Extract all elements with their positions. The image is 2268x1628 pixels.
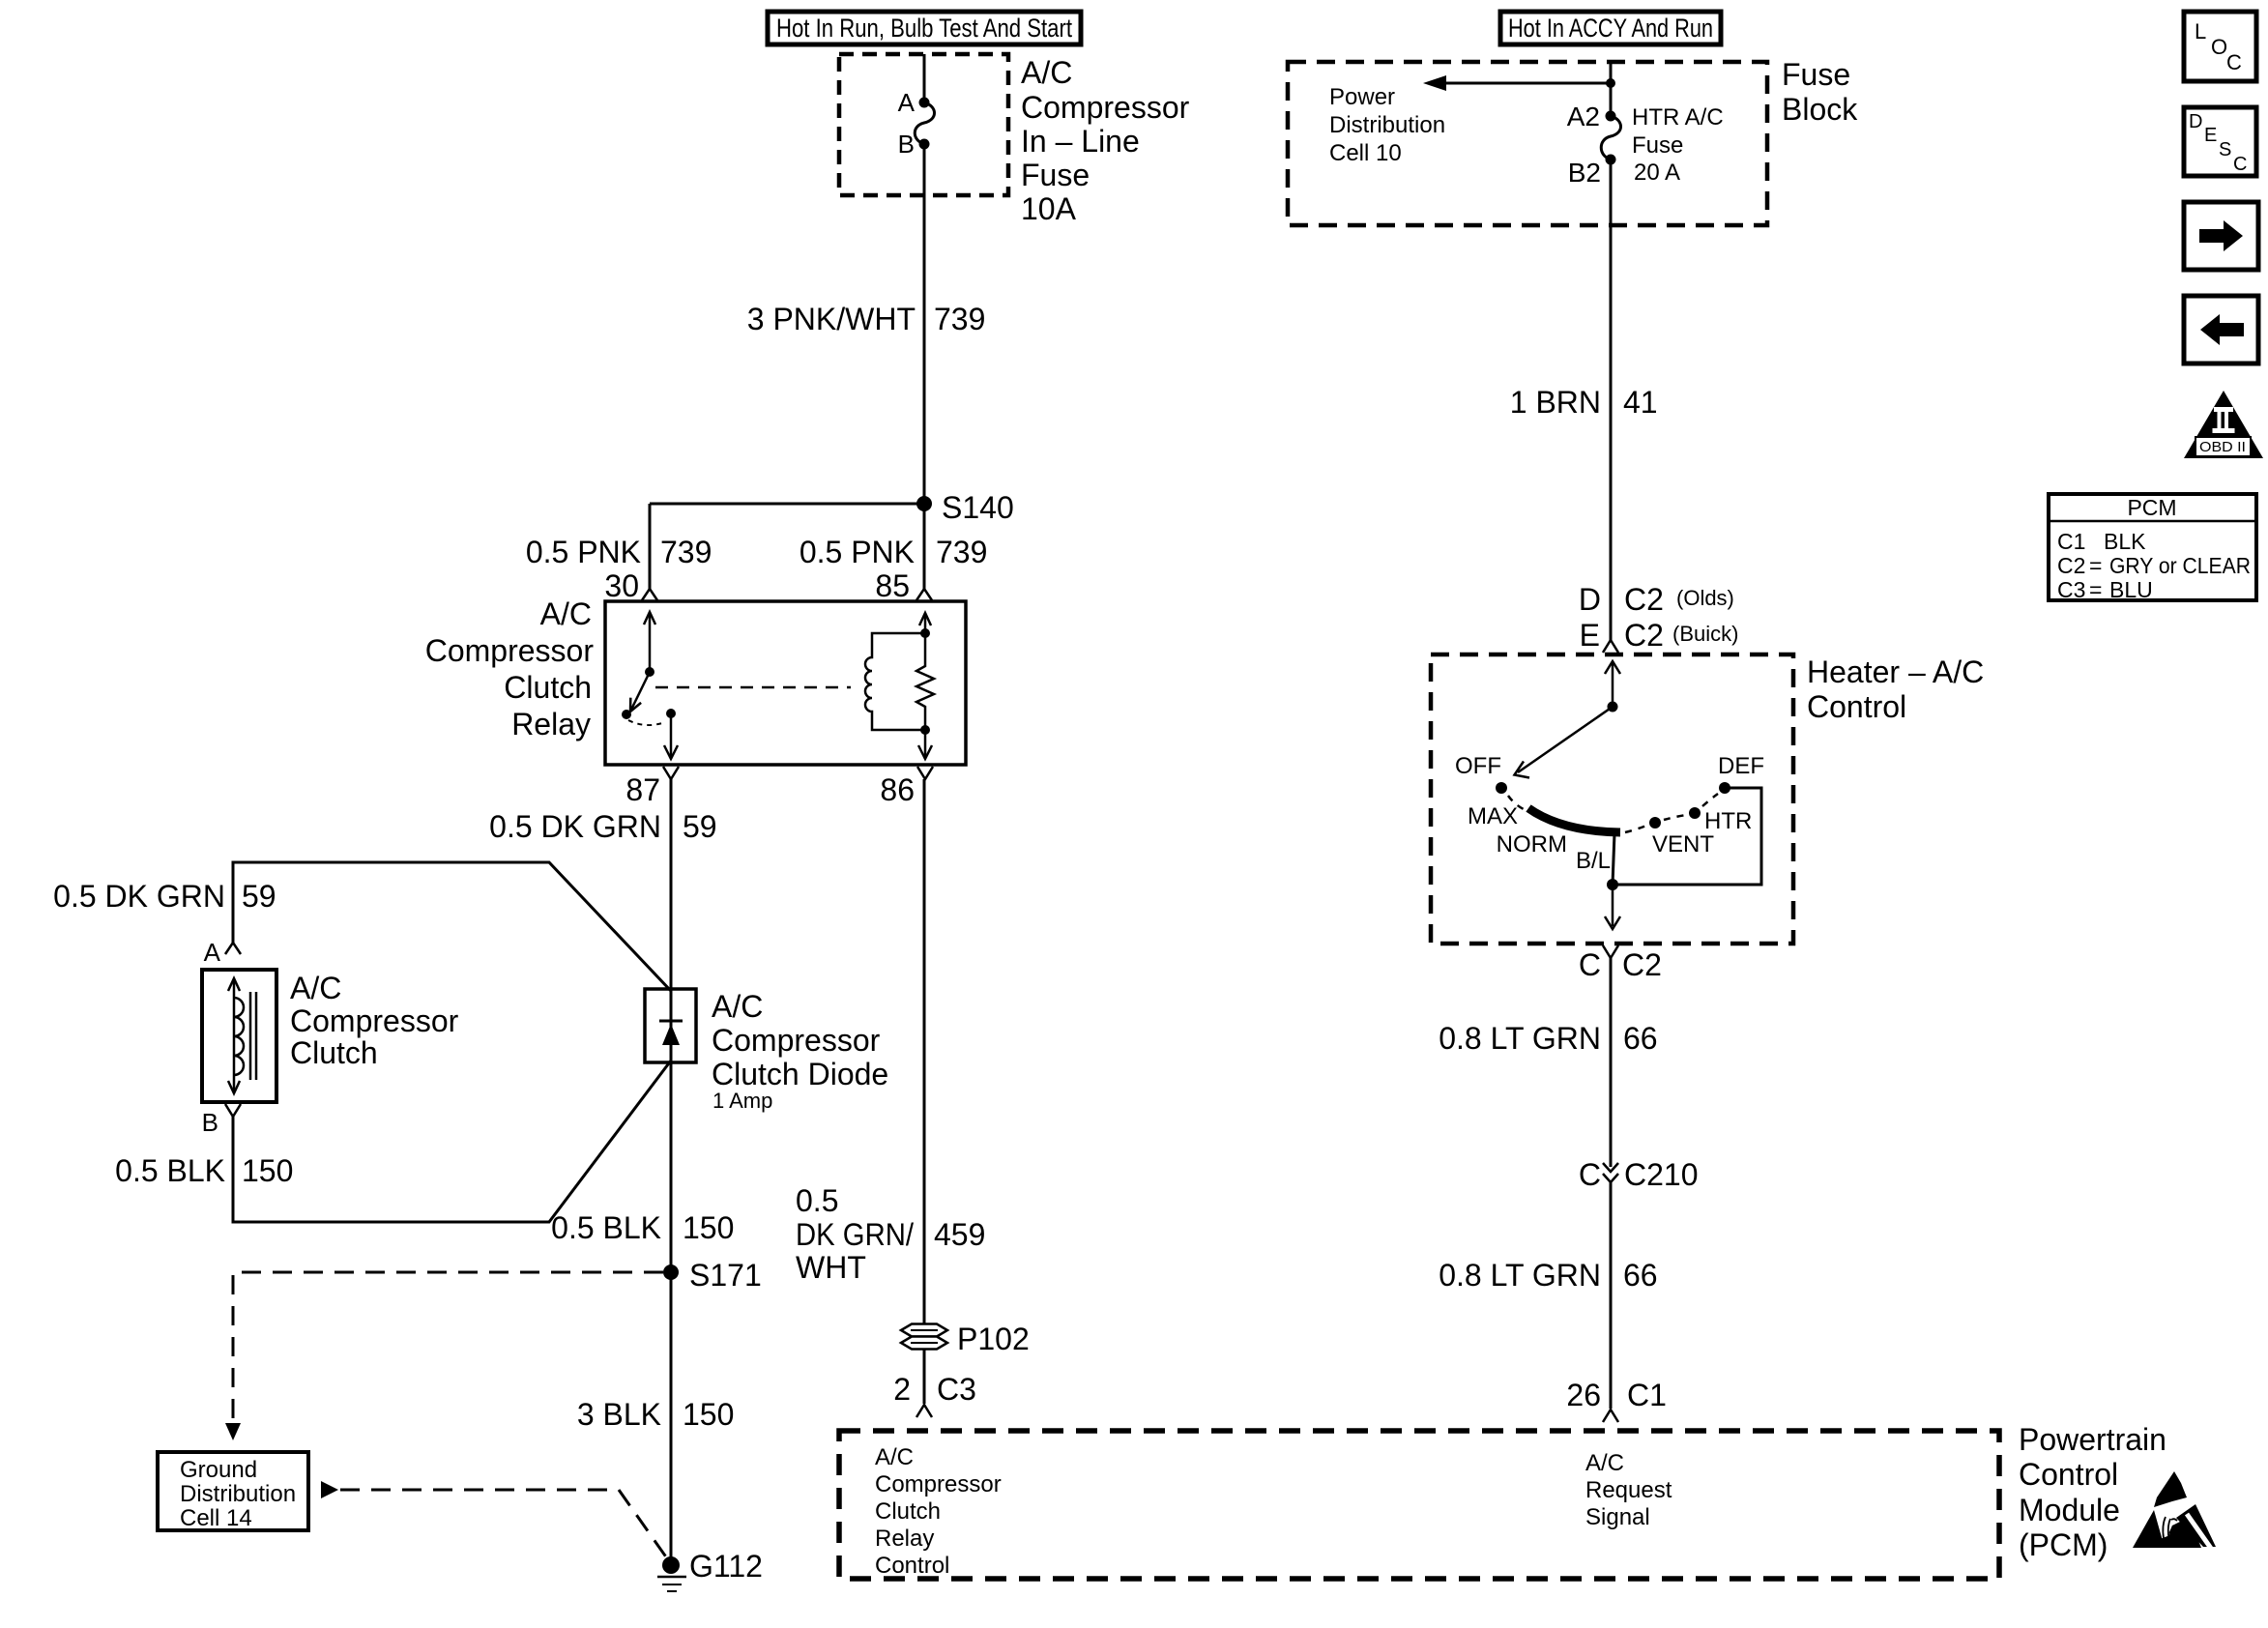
connector chevron clutch A: [225, 943, 241, 954]
in-line connector C210: [1579, 1157, 1699, 1192]
svg-text:Block: Block: [1782, 92, 1858, 127]
svg-text:Clutch: Clutch: [875, 1498, 941, 1525]
Ground Distribution Cell 14 box: [158, 1452, 308, 1531]
svg-text:BLU: BLU: [2109, 577, 2153, 602]
svg-text:A: A: [898, 88, 916, 117]
svg-text:OBD II: OBD II: [2199, 439, 2246, 455]
splice S171: [663, 1258, 762, 1293]
HTR contact: [1689, 807, 1701, 819]
svg-text:C2: C2: [2057, 553, 2085, 578]
relay switch pivot: [645, 667, 654, 677]
svg-text:Control: Control: [2019, 1457, 2118, 1492]
A/C Compressor In-Line Fuse 10A label: [1021, 55, 1190, 226]
wire label 0.5 DK GRN 59 (clutch): [53, 879, 276, 914]
svg-text:NORM: NORM: [1497, 831, 1567, 858]
svg-text:739: 739: [934, 302, 985, 336]
mode switch wiper arm: [1518, 707, 1613, 772]
connector chevron pin30: [642, 589, 657, 600]
svg-text:S171: S171: [689, 1258, 762, 1293]
relay pin87 contact: [666, 709, 676, 718]
svg-text:B2: B2: [1568, 158, 1601, 188]
svg-text:S: S: [2219, 139, 2231, 160]
VENT contact: [1649, 817, 1661, 829]
svg-text:C: C: [1579, 947, 1601, 982]
svg-text:20 A: 20 A: [1634, 160, 1680, 186]
Fuse Block label: [1782, 57, 1858, 127]
svg-text:G112: G112: [689, 1549, 763, 1584]
svg-text:=: =: [2089, 553, 2102, 578]
svg-text:WHT: WHT: [796, 1250, 866, 1285]
ESD sensitive symbol: [2133, 1471, 2216, 1550]
svg-text:2: 2: [893, 1372, 911, 1407]
svg-text:BLK: BLK: [2104, 529, 2146, 554]
svg-text:Compressor: Compressor: [875, 1471, 1002, 1497]
svg-text:Compressor: Compressor: [712, 1023, 881, 1058]
fuse terminal B2: [1606, 155, 1616, 165]
svg-text:0.5 PNK: 0.5 PNK: [800, 535, 915, 569]
wire label 0.5 BLK 150 (clutch): [115, 1153, 293, 1188]
svg-text:E: E: [2204, 125, 2217, 146]
svg-text:A2: A2: [1567, 102, 1600, 131]
svg-text:DK GRN/: DK GRN/: [796, 1217, 914, 1252]
svg-text:59: 59: [242, 879, 276, 914]
in-line fuse element: [915, 102, 934, 144]
svg-text:C1: C1: [1627, 1378, 1667, 1412]
pin labels 26 C1: [1566, 1378, 1667, 1412]
svg-text:150: 150: [242, 1153, 293, 1188]
svg-text:(Olds): (Olds): [1676, 586, 1734, 610]
svg-text:OFF: OFF: [1455, 753, 1501, 779]
fuse terminal B: [919, 139, 930, 150]
back navigation arrow box: [2184, 296, 2258, 363]
wire fuse block to heater control: [1610, 160, 1613, 640]
svg-text:Distribution: Distribution: [180, 1481, 296, 1507]
svg-text:(PCM): (PCM): [2019, 1527, 2108, 1562]
svg-text:E: E: [1580, 618, 1600, 653]
svg-text:87: 87: [625, 772, 660, 807]
svg-text:Compressor: Compressor: [1021, 90, 1190, 125]
A/C Compressor Clutch Diode box: [645, 989, 696, 1062]
dashed link ground distribution to G112: [340, 1490, 667, 1558]
svg-text:C2: C2: [1624, 582, 1664, 617]
svg-text:A/C: A/C: [1021, 55, 1072, 90]
OBD II symbol: [2184, 391, 2263, 458]
svg-text:Control: Control: [875, 1553, 949, 1579]
mode dashed arc OFF-MAX: [1508, 796, 1526, 810]
svg-text:Signal: Signal: [1585, 1504, 1650, 1530]
svg-text:0.5 BLK: 0.5 BLK: [115, 1153, 225, 1188]
clutch core lines: [249, 992, 252, 1080]
mode dashed arc VENT-HTR: [1664, 815, 1686, 820]
relay common contact: [622, 710, 631, 719]
svg-text:C2: C2: [1622, 947, 1662, 982]
HTR A/C fuse element: [1601, 116, 1620, 160]
svg-text:Control: Control: [1807, 689, 1906, 724]
connector labels E C2 (Buick): [1580, 618, 1739, 653]
svg-text:C3: C3: [937, 1372, 976, 1407]
splice S140: [916, 490, 1014, 525]
connector chevron pin86: [917, 767, 933, 779]
wire into fuse block: [1610, 62, 1613, 116]
svg-text:86: 86: [880, 772, 915, 807]
svg-text:HTR: HTR: [1704, 808, 1752, 834]
svg-text:150: 150: [683, 1397, 734, 1432]
svg-text:Module: Module: [2019, 1493, 2120, 1527]
dashed link S171 to ground distribution: [233, 1272, 663, 1422]
arrowhead out of ground distribution: [321, 1481, 338, 1498]
svg-text:Fuse: Fuse: [1632, 132, 1683, 159]
svg-text:Relay: Relay: [511, 707, 591, 741]
clutch name label: [290, 971, 459, 1070]
svg-text:C: C: [2233, 154, 2247, 175]
clutch coil with arrows: [233, 979, 236, 1092]
relay name label: [425, 596, 595, 741]
fuse terminal A2: [1606, 111, 1616, 122]
svg-text:A: A: [204, 938, 221, 967]
wire label 0.5 DK GRN 59: [489, 809, 716, 844]
wire diode to S171: [670, 1062, 673, 1272]
arrowhead into ground distribution: [225, 1423, 241, 1440]
svg-text:41: 41: [1623, 385, 1658, 420]
svg-text:L: L: [2195, 19, 2206, 44]
connector chevron clutch B: [225, 1104, 241, 1117]
mode switch pivot: [1608, 702, 1618, 712]
svg-text:10A: 10A: [1021, 191, 1077, 226]
power feed label box "Hot In Run, Bulb Test And Start": [768, 12, 1081, 44]
wire S171 to G112: [670, 1272, 673, 1565]
svg-text:C210: C210: [1624, 1157, 1699, 1192]
heater output arrow: [1612, 885, 1614, 926]
diode symbol: [659, 1020, 683, 1023]
svg-text:C3: C3: [2057, 577, 2085, 602]
svg-text:Relay: Relay: [875, 1526, 934, 1552]
relay pin86 internal arrow: [924, 730, 927, 757]
svg-text:Request: Request: [1585, 1477, 1672, 1503]
Fuse Block dashed box: [1288, 62, 1767, 225]
wire pin86 down to P102: [923, 779, 926, 1404]
svg-text:3 PNK/WHT: 3 PNK/WHT: [747, 302, 916, 336]
svg-text:B: B: [898, 130, 915, 159]
svg-text:30: 30: [604, 568, 639, 603]
relay pin87 internal arrow: [670, 713, 673, 757]
relay contact dashed throw arc: [628, 720, 665, 725]
svg-text:HTR A/C: HTR A/C: [1632, 104, 1724, 131]
svg-text:459: 459: [934, 1217, 985, 1252]
svg-text:0.5: 0.5: [796, 1183, 838, 1218]
svg-text:D: D: [2189, 111, 2202, 132]
A/C Compressor Clutch Relay box: [605, 601, 966, 765]
mode dashed arc HTR-DEF: [1702, 794, 1718, 806]
DEF contact: [1719, 782, 1730, 794]
svg-text:P102: P102: [957, 1322, 1030, 1356]
wire branch to clutch A: [233, 862, 671, 991]
svg-text:0.5 BLK: 0.5 BLK: [551, 1210, 661, 1245]
wire label 0.5 DK GRN/ WHT 459: [796, 1183, 985, 1285]
forward navigation arrow box: [2184, 202, 2258, 270]
B/L output wire: [1613, 833, 1614, 885]
DEF wire loop: [1616, 788, 1761, 885]
junction node: [1606, 78, 1615, 88]
svg-text:Power: Power: [1329, 84, 1395, 110]
wire S140 to pin30 branch: [650, 503, 924, 506]
power feed label box "Hot In ACCY And Run": [1500, 12, 1721, 44]
svg-text:1 BRN: 1 BRN: [1510, 385, 1601, 420]
svg-text:Heater – A/C: Heater – A/C: [1807, 654, 1984, 689]
connector chevron pin87: [663, 767, 679, 779]
mode dashed arc BL-VENT: [1625, 826, 1646, 832]
svg-text:A/C: A/C: [290, 971, 341, 1005]
pin labels C C2: [1579, 947, 1662, 982]
svg-text:C: C: [2226, 50, 2242, 74]
ground G112: [657, 1549, 763, 1591]
Heater-A/C Control dashed box: [1431, 654, 1793, 944]
svg-text:0.5 DK GRN: 0.5 DK GRN: [53, 879, 225, 914]
connector chevron C C2: [1603, 945, 1618, 958]
svg-text:PCM: PCM: [2127, 495, 2176, 520]
svg-text:Cell 14: Cell 14: [180, 1505, 252, 1531]
svg-text:A/C: A/C: [540, 596, 592, 631]
relay coil bottom node: [920, 725, 930, 735]
DESC reference box: [2184, 107, 2256, 176]
Power Distribution Cell 10 label: [1329, 84, 1445, 166]
A/C Compressor Clutch Relay Control label: [875, 1444, 1002, 1579]
Heater-A/C Control label: [1807, 654, 1984, 724]
svg-text:0.5 DK GRN: 0.5 DK GRN: [489, 809, 661, 844]
svg-text:Compressor: Compressor: [425, 633, 595, 668]
wire label 0.8 LT GRN 66 (lower): [1439, 1258, 1657, 1293]
svg-text:C: C: [1579, 1157, 1601, 1192]
svg-text:3 BLK: 3 BLK: [577, 1397, 661, 1432]
svg-text:GRY or CLEAR: GRY or CLEAR: [2109, 553, 2251, 578]
relay coil: [865, 633, 925, 730]
A/C Compressor Clutch box: [202, 970, 276, 1102]
diode name label: [712, 989, 888, 1113]
HTR A/C Fuse 20 A label: [1632, 104, 1724, 186]
svg-text:MAX: MAX: [1468, 803, 1518, 829]
svg-text:0.8 LT GRN: 0.8 LT GRN: [1439, 1021, 1601, 1056]
svg-text:739: 739: [936, 535, 987, 569]
relay switch wiper arm: [630, 672, 650, 712]
pin 2 C3 labels: [893, 1372, 976, 1407]
svg-text:A/C: A/C: [712, 989, 763, 1024]
wire label 0.5 BLK 150: [551, 1210, 734, 1245]
svg-text:C1: C1: [2057, 529, 2085, 554]
svg-text:VENT: VENT: [1652, 831, 1714, 858]
svg-text:A/C: A/C: [1585, 1450, 1624, 1476]
svg-text:Compressor: Compressor: [290, 1003, 459, 1038]
wire clutch B to diode bottom: [233, 1061, 671, 1222]
svg-text:Ground: Ground: [180, 1457, 257, 1483]
PCM connector legend table: [2049, 494, 2256, 602]
connector labels D C2 (Olds): [1579, 582, 1734, 617]
LOC reference box: [2184, 12, 2256, 81]
svg-text:1 Amp: 1 Amp: [712, 1089, 772, 1113]
svg-text:C2: C2: [1624, 618, 1664, 653]
connector chevron pin85: [916, 589, 932, 600]
connector chevron 2 C3: [916, 1405, 932, 1417]
wire label 3 PNK/WHT 739: [747, 302, 986, 336]
svg-text:Clutch: Clutch: [504, 670, 592, 705]
Powertrain Control Module (PCM) label: [2019, 1422, 2166, 1562]
relay pin30 internal arrow: [649, 613, 652, 672]
svg-text:Distribution: Distribution: [1329, 112, 1445, 138]
svg-text:B: B: [202, 1108, 218, 1137]
wire label 3 BLK 150: [577, 1397, 735, 1432]
svg-text:S140: S140: [942, 490, 1014, 525]
wire label 0.8 LT GRN 66: [1439, 1021, 1657, 1056]
connector chevron heater input: [1603, 640, 1618, 653]
A/C Request Signal label: [1585, 1450, 1672, 1530]
svg-text:85: 85: [875, 568, 910, 603]
grommet P102: [901, 1322, 1030, 1356]
OFF contact: [1496, 782, 1507, 794]
wire label 1 BRN 41: [1510, 385, 1658, 420]
svg-text:739: 739: [660, 535, 712, 569]
svg-text:150: 150: [683, 1210, 734, 1245]
svg-text:0.8 LT GRN: 0.8 LT GRN: [1439, 1258, 1601, 1293]
junction node: [1607, 879, 1618, 890]
heater input internal arrow: [1612, 663, 1614, 707]
svg-text:Clutch: Clutch: [290, 1035, 378, 1070]
svg-text:Cell 10: Cell 10: [1329, 140, 1402, 166]
wire label 0.5 PNK 739 (left): [526, 535, 712, 569]
svg-text:59: 59: [683, 809, 717, 844]
svg-text:A/C: A/C: [875, 1444, 914, 1470]
relay actuation dashed link: [655, 686, 851, 689]
svg-text:0.5 PNK: 0.5 PNK: [526, 535, 641, 569]
svg-text:O: O: [2211, 35, 2227, 59]
svg-text:(Buick): (Buick): [1672, 622, 1738, 646]
svg-text:Fuse: Fuse: [1021, 158, 1090, 192]
svg-text:D: D: [1579, 582, 1601, 617]
svg-text:=: =: [2089, 577, 2102, 602]
svg-text:In – Line: In – Line: [1021, 124, 1140, 159]
power distribution feed arrow: [1446, 82, 1611, 85]
svg-text:Hot In ACCY And Run: Hot In ACCY And Run: [1508, 14, 1713, 43]
svg-text:B/L: B/L: [1576, 848, 1611, 874]
wire fuse B to S140: [923, 144, 926, 504]
relay coil top node: [920, 628, 930, 638]
wire into fuse: [923, 54, 926, 102]
svg-text:66: 66: [1623, 1258, 1658, 1293]
relay suppression resistor: [916, 633, 934, 730]
wire C210 to PCM: [1610, 1182, 1613, 1409]
svg-text:26: 26: [1566, 1378, 1601, 1412]
svg-text:Hot In Run, Bulb Test And Star: Hot In Run, Bulb Test And Start: [776, 14, 1072, 43]
PCM dashed box: [839, 1431, 1999, 1579]
wire heater to C210: [1610, 958, 1613, 1167]
svg-text:66: 66: [1623, 1021, 1658, 1056]
svg-text:Powertrain: Powertrain: [2019, 1422, 2166, 1457]
wire through diode: [670, 989, 673, 1062]
svg-text:Clutch Diode: Clutch Diode: [712, 1057, 888, 1091]
A/C Compressor In-Line Fuse dashed box: [839, 54, 1008, 195]
svg-text:DEF: DEF: [1718, 753, 1764, 779]
selected position thick arc NORM: [1528, 808, 1620, 832]
svg-text:Fuse: Fuse: [1782, 57, 1850, 92]
connector chevron 26 C1: [1603, 1410, 1618, 1422]
wire label 0.5 PNK 739 (right): [800, 535, 988, 569]
wire pin87 down to diode: [670, 779, 673, 989]
fuse terminal A: [919, 98, 930, 108]
wire S140 to pin85: [923, 504, 926, 589]
relay pin85 internal arrow: [919, 613, 931, 625]
